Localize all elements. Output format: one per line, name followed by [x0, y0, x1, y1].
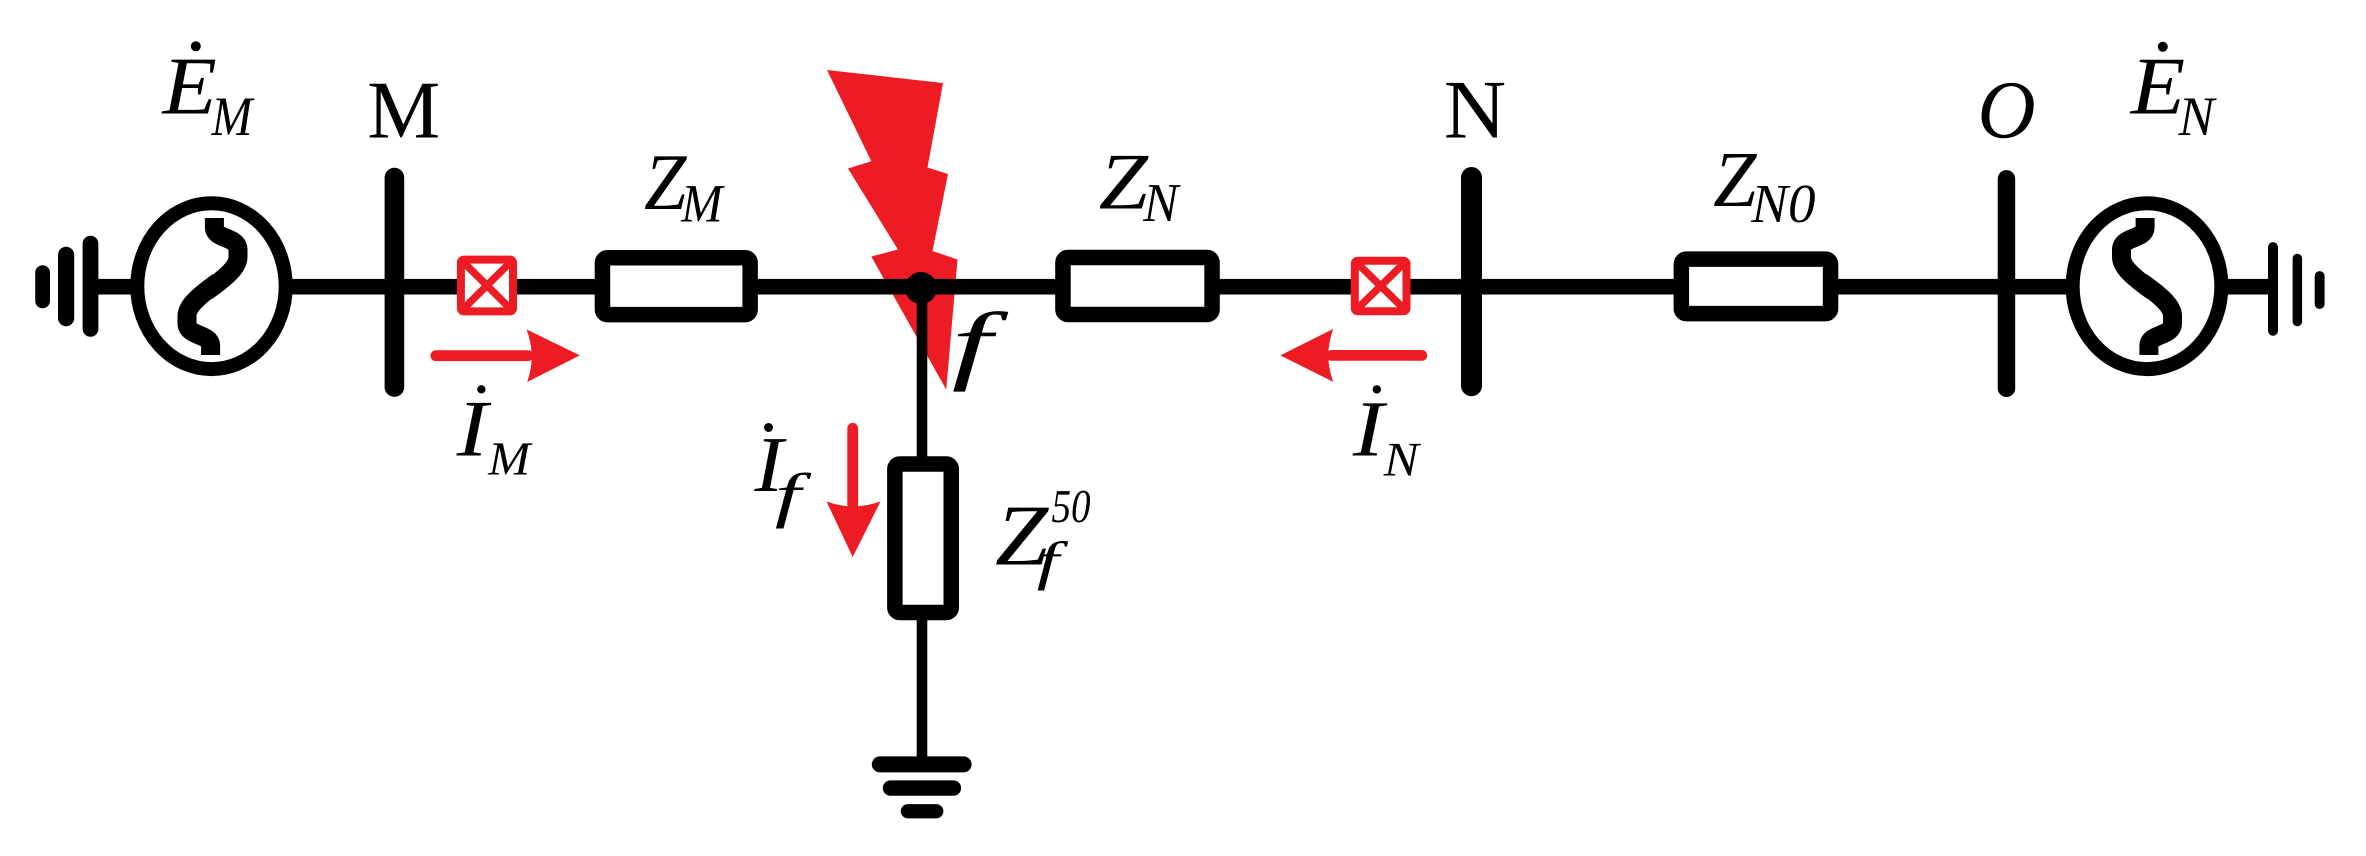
wire main horizontal line — [88, 279, 2273, 295]
bus M — [385, 168, 405, 397]
svg-text:O: O — [1978, 64, 2036, 156]
svg-text:E: E — [2130, 40, 2185, 131]
bus O — [1998, 170, 2016, 397]
bus N — [1461, 167, 1482, 396]
svg-text:I: I — [1352, 386, 1388, 474]
svg-text:N0: N0 — [1750, 173, 1815, 234]
label EN dot — [2158, 42, 2168, 52]
breaker at M — [461, 260, 513, 312]
label EM dot — [191, 41, 201, 51]
svg-text:N: N — [1444, 65, 1506, 157]
resistor Zf50 — [895, 464, 951, 612]
label IN dot — [1373, 385, 1381, 393]
svg-text:50: 50 — [1052, 481, 1091, 533]
current arrow If — [827, 428, 881, 557]
resistor ZN0 — [1681, 259, 1830, 314]
svg-text:I: I — [456, 385, 492, 474]
current arrow IN — [1280, 329, 1422, 382]
svg-text:M: M — [680, 173, 725, 233]
svg-text:M: M — [211, 86, 256, 148]
resistor ZN — [1063, 258, 1212, 315]
svg-text:Z: Z — [1099, 138, 1150, 227]
svg-text:E: E — [161, 40, 216, 131]
source EM generator — [137, 203, 285, 369]
current arrow IM — [436, 329, 580, 382]
svg-text:N: N — [1142, 172, 1181, 233]
ground bottom — [872, 756, 972, 818]
lightning bolt fault flash — [827, 70, 958, 390]
wire vertical branch at fault — [917, 288, 928, 765]
svg-text:M: M — [487, 434, 533, 486]
svg-text:N: N — [1383, 433, 1422, 486]
svg-text:M: M — [367, 65, 440, 156]
resistor ZM — [602, 258, 750, 315]
ground left — [35, 236, 98, 337]
breaker at N — [1355, 261, 1407, 312]
ground right — [2268, 242, 2325, 336]
label IM dot — [477, 385, 485, 393]
source EN generator — [2073, 203, 2222, 369]
node f — [905, 272, 937, 304]
svg-text:N: N — [2178, 86, 2217, 148]
label If dot — [764, 423, 773, 432]
